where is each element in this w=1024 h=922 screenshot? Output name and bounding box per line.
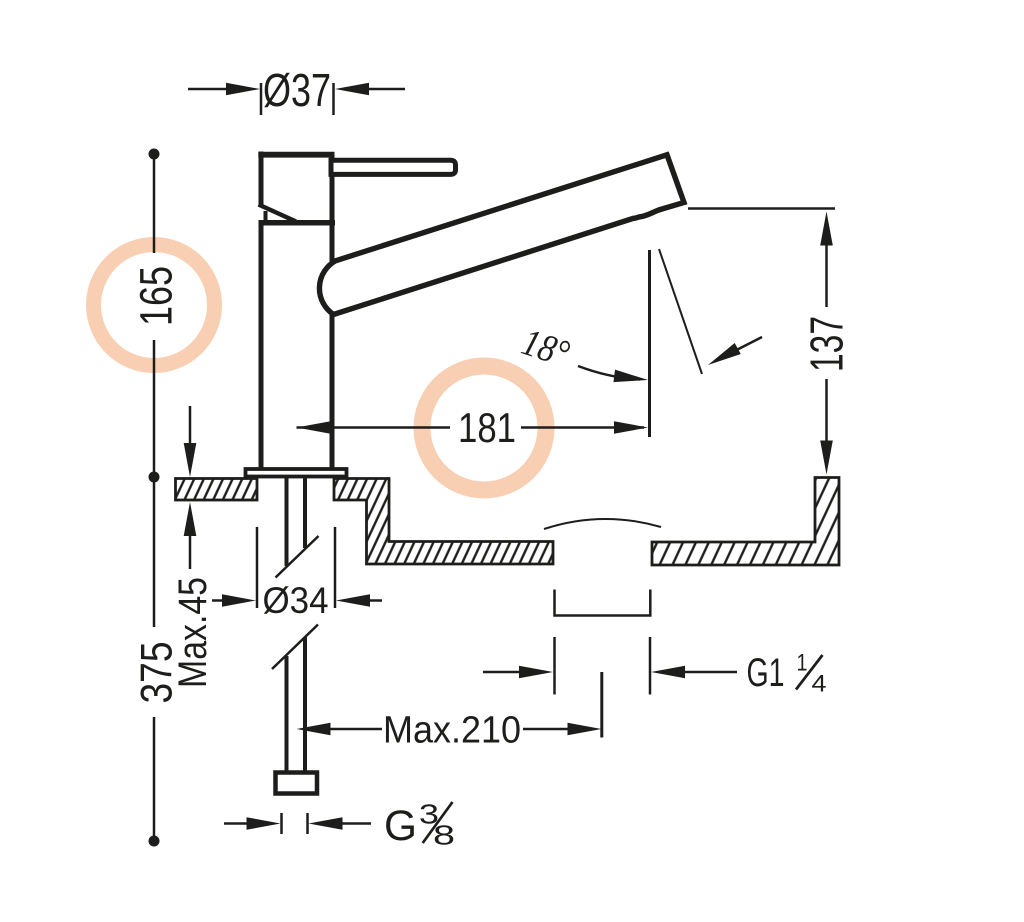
water curve over drain (544, 519, 661, 529)
svg-text:8: 8 (433, 820, 455, 851)
body left wall lower (259, 221, 264, 468)
supply pipes lower (287, 637, 306, 771)
Ø37 left tick (260, 83, 263, 115)
leader for 18 degrees (578, 366, 640, 380)
supply end block (276, 773, 318, 794)
dot bottom (149, 836, 160, 847)
dimension G 3/8 (224, 813, 371, 834)
segment above 165 label (153, 158, 156, 253)
dimension 137 (688, 207, 835, 210)
basin left section (hatched Z shape) (334, 479, 553, 565)
cartridge cap bottom edge (259, 220, 336, 226)
svg-text:G: G (384, 802, 417, 850)
svg-text:Ø34: Ø34 (263, 580, 329, 621)
segment counter dot to 375 label (153, 482, 156, 627)
segment 165 label to counter dot (153, 340, 156, 473)
drain flange bracket (555, 590, 651, 616)
cap notch stub (264, 211, 268, 222)
pipe break slash upper (276, 536, 319, 578)
supply pipes upper (287, 477, 306, 566)
Ø37 left leader line (188, 88, 228, 91)
outlet extension line (648, 250, 651, 437)
dimension G1 1/4 (483, 671, 737, 674)
drain pipe lines (555, 637, 651, 695)
Ø37 right leader line (369, 88, 405, 91)
dot middle (counter level) (149, 472, 160, 483)
highlight circle around 181 (422, 366, 546, 490)
water stream slant line (659, 249, 702, 374)
body right wall (330, 154, 335, 468)
svg-text:Max.45: Max.45 (171, 577, 215, 688)
svg-text:1: 1 (797, 650, 808, 677)
handle lever (331, 160, 456, 174)
dot top (handle level) (149, 149, 160, 160)
pipe break slash lower (272, 625, 318, 670)
angle arrow on stream (715, 337, 762, 361)
highlight circle around 165 (94, 245, 215, 366)
basin right section (hatched L shape) (652, 478, 839, 566)
base plate (246, 469, 347, 477)
spout (319, 155, 684, 315)
drain axis extension (600, 672, 603, 738)
svg-text:Max.210: Max.210 (383, 710, 521, 752)
svg-text:4: 4 (812, 671, 827, 698)
body left wall upper (259, 152, 264, 207)
Ø37 right tick (332, 83, 335, 115)
dimension Ø34 (212, 527, 382, 608)
svg-text:165: 165 (131, 266, 182, 326)
dimension Ø37 (top) (188, 83, 405, 115)
dimension Max.210 (330, 728, 568, 731)
body top edge (258, 152, 334, 158)
cap parting diagonal (259, 205, 297, 222)
dimension 181 (297, 426, 645, 429)
svg-text:181: 181 (458, 404, 516, 451)
segment below 375 label (153, 717, 156, 837)
svg-text:G1: G1 (747, 651, 785, 695)
counter slab left (hatched) (176, 479, 258, 501)
svg-text:137: 137 (801, 316, 853, 372)
faucet body (258, 152, 335, 469)
dimension Max.45 (189, 406, 192, 569)
left dimension line x=154 with dots (153, 158, 156, 837)
svg-text:Ø37: Ø37 (263, 64, 331, 116)
